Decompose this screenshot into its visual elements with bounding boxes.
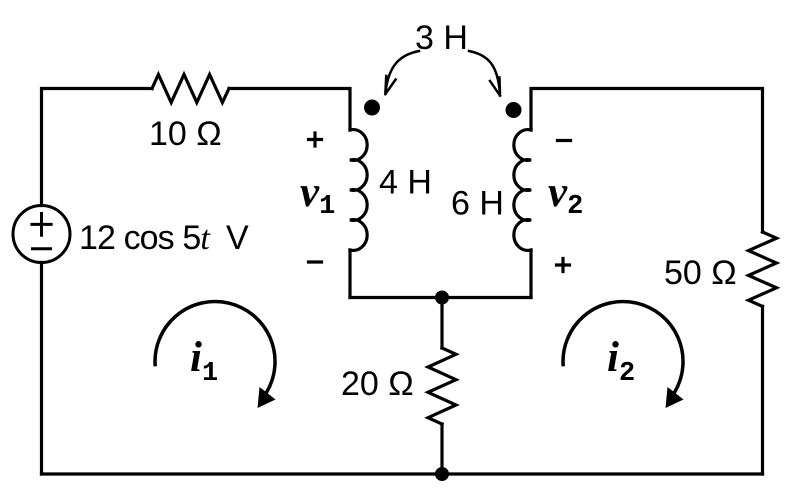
svg-text:v2: v2	[548, 169, 583, 222]
resistor R2 20 ohm zigzag	[428, 348, 456, 424]
plus sign above L1	[309, 133, 322, 146]
svg-text:i2: i2	[607, 334, 635, 389]
svg-text:12 cos 5t V: 12 cos 5t V	[79, 219, 249, 257]
inductor L1 4H coil	[350, 130, 367, 251]
svg-text:20 Ω: 20 Ω	[341, 365, 414, 403]
wire L2 bottom lead	[529, 250, 532, 298]
wire from R1 to L1 top corner	[229, 89, 350, 131]
svg-text:4 H: 4 H	[379, 164, 432, 202]
wire left-top and top segment to R1	[42, 89, 153, 206]
svg-text:6 H: 6 H	[451, 185, 504, 223]
mesh current i2 arc	[563, 302, 683, 392]
mesh arrow i2 head	[666, 387, 684, 408]
svg-text:3 H: 3 H	[415, 19, 468, 57]
coupling dot right	[506, 102, 522, 118]
svg-text:v1: v1	[300, 169, 335, 222]
wire R2 top lead	[440, 298, 443, 349]
wire L1 bottom lead	[348, 250, 351, 298]
resistor R3 50 ohm zigzag	[749, 232, 777, 306]
resistor R1 10 ohm zigzag	[152, 75, 229, 103]
wire right lower segment	[761, 306, 764, 474]
wire left lower segment	[40, 263, 43, 475]
coupling dot left	[364, 100, 380, 116]
wire bottom	[42, 472, 763, 475]
svg-text:50 Ω: 50 Ω	[664, 254, 737, 292]
wire middle horizontal	[350, 296, 531, 299]
node dot bottom	[435, 467, 449, 481]
voltage source plus sign	[32, 214, 51, 236]
svg-text:i1: i1	[190, 334, 218, 389]
mesh arrow i1 head	[258, 387, 276, 408]
voltage source V1 circle	[13, 206, 70, 263]
plus sign below L2	[557, 259, 570, 272]
mesh current i1 arc	[155, 302, 275, 392]
mutual inductance arrow left	[386, 51, 419, 91]
mutual inductance arrow left head	[385, 76, 395, 94]
mutual inductance arrow right head	[490, 78, 500, 96]
wire R2 bottom lead	[440, 424, 443, 474]
minus sign above L2	[558, 139, 571, 142]
svg-text:10 Ω: 10 Ω	[149, 115, 222, 153]
node dot middle	[435, 291, 449, 305]
minus sign below L1	[309, 260, 322, 263]
inductor L2 6H coil	[514, 130, 531, 251]
voltage source minus sign	[33, 247, 51, 250]
mutual inductance arrow right	[469, 51, 500, 92]
wire L2 top lead and top-right segment down to R3	[531, 89, 763, 233]
